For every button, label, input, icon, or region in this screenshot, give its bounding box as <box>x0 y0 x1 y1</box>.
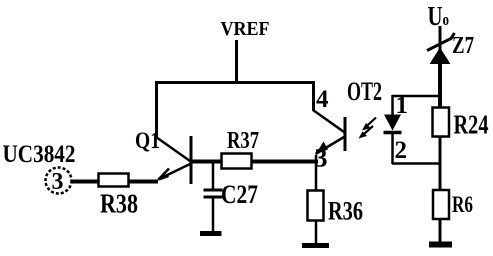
node 3 junction vertical to R36 <box>315 155 318 191</box>
wire zener to R24 (thick) <box>438 62 442 108</box>
svg-text:VREF: VREF <box>221 18 270 40</box>
svg-text:Z7: Z7 <box>452 33 474 59</box>
resistor R6 <box>433 190 449 219</box>
OT2 phototransistor <box>313 110 345 155</box>
wire LED cathode to main rail <box>392 162 441 165</box>
ground below R6 <box>429 242 452 248</box>
resistor R37 <box>222 154 252 169</box>
wire right drop to OT2 pin 4 <box>312 81 315 111</box>
wire R37 to node 3 junction <box>251 160 318 164</box>
wire LED anode to main rail <box>392 95 441 98</box>
svg-text:R24: R24 <box>454 110 489 140</box>
ground below C27 <box>200 231 222 236</box>
wire VREF stem <box>235 40 238 84</box>
svg-text:2: 2 <box>395 137 408 164</box>
wire left drop to Q1 collector <box>155 81 158 138</box>
svg-text:R6: R6 <box>452 192 473 217</box>
svg-text:R37: R37 <box>227 128 259 154</box>
UC3842 pin 3 circle <box>46 168 72 196</box>
svg-text:C27: C27 <box>221 180 258 209</box>
resistor R24 <box>433 108 450 137</box>
wire top rail <box>155 81 315 84</box>
wire R38 to Q1 emitter <box>128 180 158 184</box>
svg-text:3: 3 <box>52 169 64 195</box>
OT2 LED <box>384 95 402 164</box>
transistor Q1 <box>156 136 191 184</box>
wire R36 to ground <box>315 220 318 243</box>
OT2 light arrows <box>359 118 377 139</box>
svg-text:R36: R36 <box>328 197 363 226</box>
wire Uo main vertical <box>439 26 442 242</box>
capacitor C27 <box>204 161 223 232</box>
wire pin3 to R38 <box>71 180 99 184</box>
resistor R36 <box>308 191 324 221</box>
svg-text:UC3842: UC3842 <box>3 141 76 168</box>
svg-text:OT2: OT2 <box>347 77 382 106</box>
zener diode Z7 <box>427 33 455 64</box>
wire Q1 base to R37 <box>192 160 222 164</box>
svg-text:R38: R38 <box>100 189 138 219</box>
resistor R38 <box>99 174 129 187</box>
svg-text:Q1: Q1 <box>135 128 160 153</box>
ground below R36 <box>302 243 329 248</box>
svg-text:4: 4 <box>316 86 329 113</box>
